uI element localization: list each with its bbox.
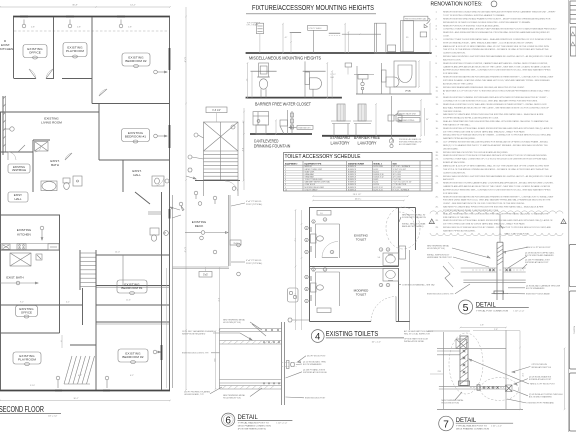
svg-text:11'-6": 11'-6" <box>126 300 131 302</box>
row1 label box right with leader <box>404 16 428 21</box>
svg-text:16.: 16. <box>436 128 439 130</box>
svg-text:SIZE: SIZE <box>393 163 398 165</box>
svg-text:EXISTING: EXISTING <box>17 228 32 232</box>
counter right piece <box>48 244 59 250</box>
svg-text:28.: 28. <box>436 220 439 222</box>
top dimension line <box>0 6 170 8</box>
deck leader circles <box>213 196 217 200</box>
svg-text:SISTERED AT EACH POST: SISTERED AT EACH POST <box>525 261 549 264</box>
row1 dark triangle marker <box>424 24 427 27</box>
leader bedroom1 lower <box>166 0 168 1</box>
detail 7 frame horizontals <box>437 347 506 349</box>
stairwell treads <box>79 250 81 290</box>
detail 6 dim left <box>215 331 217 389</box>
svg-text:1 1/2" = 1'-0": 1 1/2" = 1'-0" <box>276 422 287 424</box>
grab bar label box <box>297 126 313 130</box>
svg-text:7'-1": 7'-1" <box>293 238 295 242</box>
svg-text:10: 10 <box>285 189 287 191</box>
svg-text:BOLTS W/NUTS AND WASHERS: BOLTS W/NUTS AND WASHERS <box>525 254 554 257</box>
svg-text:EXISTING PT/PT FIREBOARD: EXISTING PT/PT FIREBOARD <box>528 402 555 405</box>
center wall vertical <box>161 192 163 390</box>
svg-text:(PSA): (PSA) <box>405 90 411 93</box>
revision table top right corner <box>570 0 576 2</box>
svg-text:BEDROOM #1: BEDROOM #1 <box>125 135 146 139</box>
svg-text:19.: 19. <box>436 152 439 154</box>
svg-text:2'-8": 2'-8" <box>77 27 81 29</box>
row1 towel bar <box>290 32 301 34</box>
svg-text:REMOVE EXISTING WINDOW AND FRA: REMOVE EXISTING WINDOW AND FRAME IN THIS… <box>443 17 551 20</box>
svg-text:17.: 17. <box>436 135 439 137</box>
svg-text:2'-8": 2'-8" <box>494 329 498 331</box>
detail 7 top dims <box>460 327 506 329</box>
svg-text:INSTALLATION/STYLE: INSTALLATION/STYLE <box>531 366 551 369</box>
detail 4 corridor right top <box>399 207 416 209</box>
svg-text:INSTALL WALL MOUNTED LIGHT FIX: INSTALL WALL MOUNTED LIGHT FIXTURES PER … <box>443 175 553 178</box>
table data rows <box>284 167 433 169</box>
svg-text:POST (TYPICAL): POST (TYPICAL) <box>246 262 263 265</box>
svg-text:BATH: BATH <box>51 163 59 167</box>
fixture circle symbol <box>10 127 14 131</box>
table header row <box>284 164 433 166</box>
stair dim box <box>206 107 227 113</box>
drinking fountain side <box>287 110 289 134</box>
label exist hall 2 <box>8 192 28 202</box>
svg-text:FIXTURES IN SAME LOCATIONS USI: FIXTURES IN SAME LOCATIONS USING THE SAM… <box>443 79 550 82</box>
svg-text:7: 7 <box>443 419 449 430</box>
svg-text:CABINETS AND APPLIANCES AS SEL: CABINETS AND APPLIANCES AS SELECTED BY T… <box>443 65 551 68</box>
right margin box 1 <box>569 244 576 286</box>
bath toilet <box>63 178 70 183</box>
lower wc fixture <box>311 283 317 292</box>
svg-text:SANITARY PIPING AS REQUIRED.: SANITARY PIPING AS REQUIRED. <box>443 229 476 232</box>
detail 7 bolt row <box>470 387 504 389</box>
svg-text:UTILITY SHELF: UTILITY SHELF <box>305 189 319 191</box>
svg-text:REMOVED - AND FINISH ENTIRE RO: REMOVED - AND FINISH ENTIRE ROOM AS ABOV… <box>443 31 550 34</box>
svg-text:EXISTING PT DECK BEAM: EXISTING PT DECK BEAM <box>526 293 550 296</box>
svg-text:14'-2": 14'-2" <box>130 5 136 7</box>
detail 7 post bolts <box>463 350 466 353</box>
svg-text:AS SELECTED BY THE CLIENT.: AS SELECTED BY THE CLIENT. <box>443 82 474 85</box>
kitchen sink <box>2 244 10 249</box>
wc front grab bar <box>251 70 277 72</box>
svg-text:WITH 5/8 GWB EACH SIDE - TAPE,: WITH 5/8 GWB EACH SIDE - TAPE, SPACKLE A… <box>443 41 534 44</box>
revision delta box top right <box>571 27 576 56</box>
shelf small right <box>345 63 352 67</box>
svg-text:4: 4 <box>315 332 320 343</box>
detail4 leader hexagon bottom left <box>288 318 292 322</box>
row1 dim vertical <box>282 24 284 53</box>
svg-text:EXIST. BATH: EXIST. BATH <box>6 276 23 280</box>
standard lavatory elevation <box>337 104 345 121</box>
svg-text:REMOVE PORTION OF EXISTING TOI: REMOVE PORTION OF EXISTING TOILETS AS IN… <box>443 24 500 27</box>
svg-text:REMOVE EXISTING PLUMBING FIXTU: REMOVE EXISTING PLUMBING FIXTURES AND RE… <box>443 96 548 99</box>
svg-text:REMOVE EXISTING KITCHEN COUNTE: REMOVE EXISTING KITCHEN COUNTER, CABINET… <box>443 62 548 65</box>
svg-text:40": 40" <box>285 37 288 39</box>
room label existing office 2 <box>16 306 38 317</box>
svg-text:27": 27" <box>242 121 244 124</box>
svg-text:FIRE EXTINGUISHER CAB.: FIRE EXTINGUISHER CAB. <box>405 18 427 21</box>
svg-text:EQUIPMENT TYPE: EQUIPMENT TYPE <box>305 163 322 165</box>
bath2 arrow line <box>0 282 38 284</box>
svg-text:9'-2": 9'-2" <box>20 302 24 304</box>
svg-text:12.: 12. <box>436 97 439 99</box>
svg-text:CONSTRUCT NEW RAISED AND LEVEL: CONSTRUCT NEW RAISED AND LEVELED PLATFOR… <box>443 28 557 31</box>
upper wc fixture <box>311 234 317 243</box>
room label existing playroom 2 <box>13 352 41 364</box>
svg-text:W/DRIP EDGE REQUIRED: W/DRIP EDGE REQUIRED <box>182 334 206 336</box>
row3 left ground drinking fountain <box>250 133 312 135</box>
svg-text:INSTALL SIMPSON H2.5T: INSTALL SIMPSON H2.5T <box>427 254 450 257</box>
corridor door swing dashed <box>399 212 415 228</box>
svg-text:HOLDOWN (STYLE): HOLDOWN (STYLE) <box>427 248 445 250</box>
sheet border right <box>568 0 570 432</box>
detail 7 frame verticals <box>443 332 445 409</box>
svg-text:INSTALL NEW 36 IN GRAB: INSTALL NEW 36 IN GRAB <box>402 223 426 226</box>
svg-text:5/8 TYPE X FIRECODE GWB W/ JOI: 5/8 TYPE X FIRECODE GWB W/ JOINTS TAPED … <box>443 223 525 226</box>
kitchen range <box>17 244 26 250</box>
leader bedroom2 lower window <box>153 350 157 354</box>
svg-text:KITCHEN: KITCHEN <box>0 47 13 51</box>
lower stall partition <box>315 272 317 306</box>
bath door <box>65 153 72 160</box>
svg-text:LAVATORY: LAVATORY <box>358 140 377 145</box>
bath vestibule cluster walls <box>32 140 34 192</box>
svg-text:(2) 1/2 IN DIA GALV. THRU: (2) 1/2 IN DIA GALV. THRU <box>303 361 327 364</box>
bottom door swing <box>371 297 396 322</box>
upper fixture tags <box>312 220 316 223</box>
vertical wall x82 lower <box>82 288 84 325</box>
svg-text:1-9: 1-9 <box>320 213 323 215</box>
svg-text:3'-8 1/2": 3'-8 1/2" <box>212 109 221 112</box>
wc nook by hall <box>152 176 164 186</box>
svg-text:PLAYROOM: PLAYROOM <box>18 358 36 362</box>
svg-text:INSULATE PIPING: INSULATE PIPING <box>399 119 415 122</box>
svg-text:5'-10": 5'-10" <box>30 385 35 387</box>
svg-text:11.: 11. <box>436 90 439 92</box>
row1 tall door <box>401 21 414 52</box>
svg-text:27.: 27. <box>436 213 439 215</box>
wc front elevation tank <box>259 63 269 77</box>
svg-text:EXISTING: EXISTING <box>13 165 25 169</box>
detail 7 post hatched <box>460 336 468 386</box>
svg-text:CONTRACTOR TO USE EXISTING HOT: CONTRACTOR TO USE EXISTING HOT/COLD, VEN… <box>443 100 538 103</box>
deck 5x5 box <box>199 272 212 278</box>
bath fixtures sink oval <box>42 181 56 190</box>
upper grab bars <box>310 227 312 232</box>
svg-text:REMOVE EXISTING BOTTOM SHOE ST: REMOVE EXISTING BOTTOM SHOE STONES AND R… <box>443 154 548 157</box>
wc side wall <box>304 61 306 97</box>
svg-text:FIRE RATING OF THE WALL.: FIRE RATING OF THE WALL. <box>443 123 471 126</box>
svg-text:POST (TYPICAL): POST (TYPICAL) <box>246 203 263 206</box>
upper lavatory <box>383 253 399 266</box>
exterior wall top <box>13 16 170 18</box>
svg-text:TYPICAL RAILING POST TO: TYPICAL RAILING POST TO <box>456 425 488 428</box>
svg-text:(2) 2X8 PT BAND JOISTS: (2) 2X8 PT BAND JOISTS <box>303 369 326 372</box>
wc section vertical row3 <box>291 111 293 134</box>
svg-text:DECK: DECK <box>195 224 205 228</box>
svg-text:CONTINUOUS HANDRAIL - SEE 7/A2: CONTINUOUS HANDRAIL - SEE 7/A2 <box>402 284 435 287</box>
svg-text:25.: 25. <box>436 196 439 198</box>
svg-text:BEDROOM #1: BEDROOM #1 <box>121 286 142 290</box>
row1 door rect <box>375 23 386 53</box>
title detail 5 <box>459 300 473 314</box>
row1 long rail line <box>342 33 381 35</box>
svg-text:3'-6": 3'-6" <box>233 243 238 245</box>
svg-text:REMOVE EXISTING BATHROOM FIXTU: REMOVE EXISTING BATHROOM FIXTURES AND FI… <box>443 76 553 79</box>
detail 4 mid wall <box>310 266 399 268</box>
wc side grab bar <box>303 70 326 72</box>
svg-text:FIXTURE/ACCESSORY MOUNTING HEI: FIXTURE/ACCESSORY MOUNTING HEIGHTS <box>252 3 374 12</box>
row1 wall fixture right <box>420 32 427 37</box>
detail 5 bolt dashed <box>472 269 524 271</box>
svg-text:KITCHEN: KITCHEN <box>17 232 31 236</box>
svg-text:INSTALL NEW BALL MOUNTED TILE: INSTALL NEW BALL MOUNTED TILE LEDGE BOAR… <box>443 151 509 154</box>
svg-text:EXISTING DECK JOISTS, TYP.: EXISTING DECK JOISTS, TYP. <box>427 294 454 296</box>
svg-text:1 1/2" = 1'-0": 1 1/2" = 1'-0" <box>513 311 524 313</box>
kitchen right wall <box>59 215 61 333</box>
svg-text:REMOVE EXISTING KITCHEN CABINE: REMOVE EXISTING KITCHEN CABINETS AND COU… <box>443 182 554 185</box>
wc side profile <box>305 72 310 85</box>
svg-text:TOILET ACCESSORY SCHEDULE: TOILET ACCESSORY SCHEDULE <box>285 154 361 160</box>
svg-text:OFFICE: OFFICE <box>21 311 32 315</box>
wc side profile 2 <box>381 63 383 94</box>
svg-text:SANITARY PIPING AS REQUIRED.: SANITARY PIPING AS REQUIRED. <box>443 137 476 140</box>
svg-text:4: 4 <box>432 39 433 41</box>
detail 5 ledger lines <box>461 267 497 269</box>
svg-text:3'-0": 3'-0" <box>521 373 523 377</box>
door swing bedroom2 <box>99 89 107 96</box>
window right wall upper <box>169 48 171 70</box>
detail 5 zigzag break <box>443 266 453 287</box>
detail 7 post foot <box>459 381 470 386</box>
wall office/playroom <box>53 17 55 79</box>
svg-text:REMOVE ALL EXISTING FLOOR, WAL: REMOVE ALL EXISTING FLOOR, WALL AND CEIL… <box>443 103 547 106</box>
svg-text:PAPER TOWEL DISP.: PAPER TOWEL DISP. <box>305 168 323 171</box>
svg-text:OFFICE: OFFICE <box>29 51 41 55</box>
svg-text:CONSTRUCT NEW 2 HOUR FIRE RATE: CONSTRUCT NEW 2 HOUR FIRE RATED WALL - S… <box>443 38 552 41</box>
left closet bump <box>288 288 299 302</box>
svg-text:TO FIT W/ EXISTING OPENING. EX: TO FIT W/ EXISTING OPENING. EXISTING HEA… <box>443 14 505 17</box>
svg-text:10.: 10. <box>436 87 439 89</box>
lower shelf <box>317 308 331 313</box>
svg-text:4"x4" PT WOOD: 4"x4" PT WOOD <box>246 260 262 262</box>
svg-text:CLIENTS DISCRETION.: CLIENTS DISCRETION. <box>443 53 466 55</box>
svg-text:OPTION: PARTITION GLUE: OPTION: PARTITION GLUE <box>404 337 429 340</box>
svg-text:2'-8": 2'-8" <box>128 27 132 29</box>
kitchen counter <box>0 243 60 245</box>
svg-text:6 1/4" DIA.: 6 1/4" DIA. <box>393 178 402 181</box>
svg-text:8" X 24" - SURFACE: 8" X 24" - SURFACE <box>393 188 410 191</box>
room label existing bedroom2 lower <box>118 349 148 362</box>
svg-text:AS PREVIOUSLY REMOVED SINK - C: AS PREVIOUSLY REMOVED SINK - CONTRACTOR … <box>443 69 551 72</box>
svg-text:36'-2": 36'-2" <box>73 398 78 400</box>
title detail 4 <box>311 330 324 343</box>
svg-text:HALL: HALL <box>15 197 22 201</box>
detail 5 bolt X marks <box>489 269 491 271</box>
svg-text:CLIENTS DISCRETION.: CLIENTS DISCRETION. <box>443 172 466 174</box>
row1 mirror cabinet <box>256 23 263 33</box>
svg-text:CANTILEVERED: CANTILEVERED <box>254 138 279 143</box>
svg-text:TYPICAL POST CONNECTION: TYPICAL POST CONNECTION <box>476 310 509 313</box>
svg-text:33": 33" <box>245 79 247 82</box>
wall playroom/bedroom2 <box>91 17 93 104</box>
stair leader circles <box>194 133 198 137</box>
detail 5 foot plate <box>494 291 504 294</box>
svg-text:(2) 5/8 IN DIA HOT DIPPED THRO: (2) 5/8 IN DIA HOT DIPPED THROUGH <box>529 393 563 396</box>
wall bedroom1 bottom <box>99 159 170 161</box>
closet box <box>35 142 49 152</box>
room label existing playroom <box>63 43 87 57</box>
svg-text:REQ. BY LOCAL INSPECTOR: REQ. BY LOCAL INSPECTOR <box>404 333 430 336</box>
svg-text:AS PREVIOUSLY REMOVED SINK - C: AS PREVIOUSLY REMOVED SINK - CONTRACTOR … <box>443 188 551 191</box>
room label existing bedroom1 lower <box>117 280 147 293</box>
detail 7 dashed ellipse horizontal <box>481 378 519 401</box>
svg-text:EACH EXIT DOOR.: EACH EXIT DOOR. <box>443 58 461 61</box>
detail 7 dashed ellipse vertical <box>449 333 483 394</box>
svg-text:SCREWS AT EACH POST: SCREWS AT EACH POST <box>529 378 552 381</box>
svg-text:SAW NEW PVC WASTE AND PIPING T: SAW NEW PVC WASTE AND PIPING THROUGH THE… <box>443 113 544 116</box>
row3 lavatory ground <box>322 135 416 137</box>
svg-text:DRINKING FOUNTAIN: DRINKING FOUNTAIN <box>254 144 291 149</box>
svg-text:13.: 13. <box>436 104 439 106</box>
svg-text:REMOVE EXISTING BATHROOM FIXTU: REMOVE EXISTING BATHROOM FIXTURES AND FI… <box>443 195 553 198</box>
title detail 6 <box>222 413 235 426</box>
room label existing bedroom2 <box>122 53 150 66</box>
leader to right window <box>154 70 158 74</box>
wall below office+playroom <box>14 78 36 80</box>
svg-text:MAKE A LIST A 16 IN UP OF NEW: MAKE A LIST A 16 IN UP OF NEW STAIRWELL … <box>443 45 550 48</box>
detail 6 bottom bolts <box>263 382 265 384</box>
office2 wall <box>0 304 83 306</box>
exterior wall bottom <box>0 390 170 392</box>
svg-text:HOLDOWN (STYLE): HOLDOWN (STYLE) <box>223 322 241 324</box>
svg-text:4"x4" PT WOOD: 4"x4" PT WOOD <box>246 201 262 203</box>
svg-text:12'-4": 12'-4" <box>184 57 186 63</box>
svg-text:SANITARY NAPKIN DISPOSAL: SANITARY NAPKIN DISPOSAL <box>305 181 330 184</box>
svg-text:TYPICAL RAILING POST TO: TYPICAL RAILING POST TO <box>238 422 270 425</box>
svg-text:(2) IN DIA GALV CARRIAGE THROU: (2) IN DIA GALV CARRIAGE THROUGH <box>526 285 561 288</box>
room label existing bedroom1 <box>122 129 150 142</box>
svg-text:COAT HOOK: COAT HOOK <box>305 183 316 186</box>
svg-text:6'-0": 6'-0" <box>217 298 219 302</box>
svg-text:BOBRICK: BOBRICK <box>348 189 357 191</box>
vertical dim lines mid <box>61 335 63 348</box>
svg-text:REMOVE EXISTING DOUBLE WINDOW: REMOVE EXISTING DOUBLE WINDOW UNIT AND R… <box>443 11 556 14</box>
urinal front PSA <box>394 61 416 87</box>
detail 6 bottom joist <box>220 379 282 381</box>
revision delta right <box>561 219 566 224</box>
bath shower <box>73 176 82 186</box>
svg-text:SOUND BATT INSULATION: SOUND BATT INSULATION <box>402 216 426 219</box>
svg-text:28'-3 1/2": 28'-3 1/2" <box>353 194 362 196</box>
svg-text:29.: 29. <box>436 227 439 229</box>
lav side view <box>356 66 358 94</box>
upper stall door <box>322 257 338 259</box>
fridge box <box>36 254 42 260</box>
svg-text:MANUFACTURER: MANUFACTURER <box>348 162 365 165</box>
label existing vestibule <box>8 164 30 173</box>
svg-text:INSTALL NEW BEADBOARD FIBERGLA: INSTALL NEW BEADBOARD FIBERGLASS CEILING… <box>443 86 525 89</box>
svg-text:CONSTRUCT NEW WALL CONSISTING: CONSTRUCT NEW WALL CONSISTING OF 2 X 4 W… <box>443 158 548 161</box>
svg-text:5: 5 <box>463 302 469 314</box>
lower stair hatch <box>64 356 72 384</box>
bottom wall windows <box>55 390 62 392</box>
svg-text:17'-6": 17'-6" <box>184 247 186 253</box>
svg-text:EACH EXIT.: EACH EXIT. <box>443 178 455 181</box>
svg-text:CLIENT - SEE RENOVATION NOTE #: CLIENT - SEE RENOVATION NOTE #16 FOR CON… <box>443 202 525 205</box>
svg-text:NEW 4 X 4 PT WOOD POST: NEW 4 X 4 PT WOOD POST <box>530 384 555 386</box>
revision cloud dashed ellipse near corridor <box>386 207 420 249</box>
detail 6 top joist hatch <box>222 341 226 345</box>
svg-text:NEW 4 X 4 PT WOOD POST: NEW 4 X 4 PT WOOD POST <box>526 247 551 249</box>
svg-text:2'-8": 2'-8" <box>31 27 35 29</box>
window marks top wall <box>20 16 28 18</box>
closet door small <box>35 146 41 152</box>
svg-text:BARRIER FREE WATER CLOSET: BARRIER FREE WATER CLOSET <box>255 101 311 106</box>
svg-text:2X8: 2X8 <box>213 358 215 361</box>
door swing office <box>29 69 36 79</box>
mid shelf lines <box>148 211 162 213</box>
svg-text:RENOVATION NOTES:: RENOVATION NOTES: <box>431 2 483 8</box>
svg-text:26.: 26. <box>436 207 439 209</box>
svg-text:INSTALLATION OF NEW DOOR AND D: INSTALLATION OF NEW DOOR AND DOUBLE SIDE… <box>443 21 531 24</box>
svg-text:MISCELLANEOUS MOUNTING HEIGHTS: MISCELLANEOUS MOUNTING HEIGHTS <box>249 55 321 60</box>
svg-text:NEW TEMPERED METAL: NEW TEMPERED METAL <box>223 319 245 322</box>
room label existing office <box>23 45 47 58</box>
svg-text:24" X 36" - SURFACE: 24" X 36" - SURFACE <box>393 165 411 168</box>
svg-text:SEAL ALL PENETRATIONS THROUGH: SEAL ALL PENETRATIONS THROUGH EXISTING F… <box>443 120 549 123</box>
row1 right dim <box>429 24 431 53</box>
lower grab bars <box>310 276 312 281</box>
svg-text:5'x5': 5'x5' <box>203 274 208 277</box>
leaders right of center <box>170 207 180 210</box>
row2 right ground <box>356 93 432 95</box>
exterior wall left upper <box>13 17 15 79</box>
svg-text:(ADD'L): (ADD'L) <box>355 197 362 200</box>
svg-text:1/2" = 1'-0": 1/2" = 1'-0" <box>372 342 382 344</box>
svg-text:CUT OPENING IN EXISTING WALL A: CUT OPENING IN EXISTING WALL AS REQUIRED… <box>443 141 549 144</box>
kitchen island table <box>10 253 31 266</box>
existing deck outline <box>228 195 230 266</box>
svg-text:HOLDOWN (STYLE): HOLDOWN (STYLE) <box>441 402 459 404</box>
right dimension extension line <box>185 7 187 390</box>
wall bedroom1 left <box>98 104 100 161</box>
toilet accessory schedule table <box>284 153 433 192</box>
revision cloud around last notes <box>430 211 563 214</box>
svg-text:14'-0": 14'-0" <box>115 252 120 254</box>
svg-text:17"-19": 17"-19" <box>330 74 336 76</box>
svg-text:20.: 20. <box>436 155 439 157</box>
svg-text:LIVING ROOM: LIVING ROOM <box>41 120 62 124</box>
svg-text:MODEL #: MODEL # <box>374 163 383 165</box>
svg-text:INSTALL WALL MOUNTED LIGHT FIX: INSTALL WALL MOUNTED LIGHT FIXTURES PER … <box>443 55 553 58</box>
detail 5 beam lines below <box>463 279 525 281</box>
svg-text:TOILET: TOILET <box>356 293 367 297</box>
row1 ground line <box>246 52 432 54</box>
deck window on right wall <box>169 209 171 219</box>
svg-text:SEAL ALL PENETRATIONS THROUGH: SEAL ALL PENETRATIONS THROUGH EXISTING F… <box>443 212 549 215</box>
detail4 left dims <box>295 210 297 330</box>
svg-text:(POST BETWEEN JOISTS): (POST BETWEEN JOISTS) <box>238 428 266 430</box>
upper stall partition <box>315 224 317 258</box>
svg-text:15.: 15. <box>436 121 439 123</box>
svg-text:HALL: HALL <box>133 173 141 177</box>
svg-text:1 1/2" = 1'-0": 1 1/2" = 1'-0" <box>491 425 502 427</box>
wall y345 segment <box>70 344 96 346</box>
svg-text:2X8 PT PROPERLY FLASHED: 2X8 PT PROPERLY FLASHED <box>184 391 211 394</box>
window circles <box>22 24 26 28</box>
svg-text:23.: 23. <box>436 176 439 178</box>
